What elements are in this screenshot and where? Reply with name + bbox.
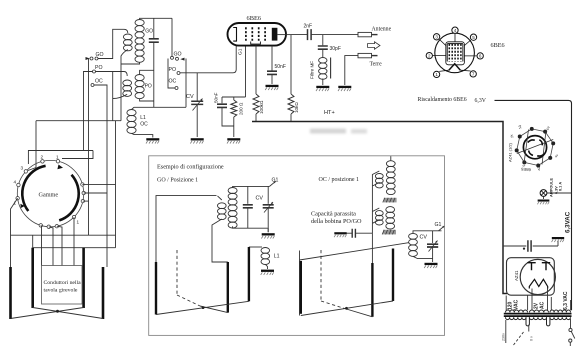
svg-text:G1: G1 <box>435 222 442 228</box>
wire PO coil top/bottom to rail x154 <box>140 70 154 101</box>
wire to ground 6.3 return <box>557 241 559 247</box>
svg-text:OC / posizione 1: OC / posizione 1 <box>319 177 360 183</box>
ground GO tank <box>267 228 269 232</box>
svg-text:4: 4 <box>14 180 17 185</box>
svg-text:3: 3 <box>435 35 438 40</box>
svg-text:0.1 A: 0.1 A <box>559 182 563 191</box>
ground under CV <box>190 138 203 143</box>
terminal G1 arrow <box>270 181 276 186</box>
board diagonal 1 <box>11 308 84 319</box>
rotary contact 188deg <box>16 197 19 200</box>
wire verticals down to board <box>89 186 116 267</box>
wire GO coil top to G1 <box>233 186 270 187</box>
GO main coil <box>228 188 237 194</box>
board label box <box>42 266 83 305</box>
svg-text:2: 2 <box>41 155 44 160</box>
wire rotary right contacts to verticals <box>83 200 89 202</box>
svg-text:OC: OC <box>95 79 103 85</box>
svg-text:GO: GO <box>145 29 153 35</box>
inductor L PO (oscillator coil PO) <box>135 75 144 81</box>
GO wafer diagonal 1 <box>156 301 249 314</box>
OC wafer diagonal 2 <box>343 308 372 317</box>
rotor wiper arrow <box>57 165 63 170</box>
wire mains tap dashed <box>514 332 524 345</box>
tube basing pin 2 <box>426 52 432 58</box>
wire tube leads to windings <box>506 289 570 311</box>
rotary rotor arc B <box>59 175 79 221</box>
GO wafer diagonal 2 <box>200 306 228 313</box>
OC wafer diagonal 1 <box>301 301 393 316</box>
svg-text:OC: OC <box>140 122 148 128</box>
tube V1 screen bracket <box>251 42 261 45</box>
inductor L1 OC coil <box>127 110 136 116</box>
tube basing pin spokes <box>433 34 477 72</box>
tube V1 cathode <box>233 28 236 42</box>
wire GO coil top to top rail <box>140 18 172 19</box>
svg-text:230v: 230v <box>502 333 506 341</box>
inductor L GO (oscillator coil GO) <box>135 20 144 26</box>
svg-text:L1: L1 <box>274 254 280 260</box>
svg-text:a2: a2 <box>537 167 541 171</box>
board bar 3 <box>82 248 85 308</box>
svg-text:6,3VAC: 6,3VAC <box>565 211 572 233</box>
rotary contact 347deg <box>81 199 84 202</box>
ground OC tank <box>424 263 437 268</box>
wire terre to ground <box>345 56 358 85</box>
rotary rotor arc A <box>22 166 45 211</box>
ground PSU <box>552 237 565 242</box>
tube V1 grids (dashed columns) <box>245 27 247 41</box>
GO wafer outline <box>156 196 217 262</box>
wire vertical to rotary x115.5 <box>115 121 117 203</box>
ground screen bypass <box>265 85 278 90</box>
rotary contact 1deg <box>82 191 85 194</box>
wire rotary lower-left contact <box>40 225 43 265</box>
ground filtre MF <box>316 86 329 91</box>
svg-text:5: 5 <box>472 35 475 40</box>
wire OC tank bottom <box>413 256 433 258</box>
svg-text:AZ41: AZ41 <box>514 270 519 281</box>
svg-text:AZ41 (1/2): AZ41 (1/2) <box>508 142 513 162</box>
OC wafer dashed rotor <box>320 250 322 301</box>
inductor small coupling coil (PO band) <box>123 80 132 86</box>
tube basing cathode vee <box>449 64 461 70</box>
tube basing internal structure <box>446 42 465 65</box>
transformer secondary 2V <box>530 310 549 312</box>
wire h150 segment <box>28 150 93 152</box>
OC tank coil <box>409 233 418 239</box>
rotary contact 104deg <box>41 160 44 163</box>
svg-text:2: 2 <box>428 53 431 58</box>
GO wafer junction dot <box>202 306 205 309</box>
svg-text:OC: OC <box>169 79 177 85</box>
inductor small coupling coil (GO band) <box>123 34 132 40</box>
inductor L1 GO position <box>249 246 262 248</box>
tube basing pin 6 <box>477 53 483 59</box>
capacitor parasitic <box>352 229 355 238</box>
wire rotary left contact down <box>11 198 18 267</box>
tube basing pin 4 <box>452 27 458 33</box>
capacitor filter electrolytic <box>528 240 531 252</box>
tube basing pin 1 <box>433 71 439 77</box>
capacitor padder GO <box>247 186 249 203</box>
svg-text:Capacità parassita: Capacità parassita <box>311 210 356 217</box>
svg-text:HT+: HT+ <box>324 110 335 116</box>
GO wafer small coil leads <box>212 196 228 262</box>
board bar 2 <box>31 248 34 308</box>
wire screen lead down <box>255 46 257 95</box>
svg-text:3: 3 <box>21 166 24 171</box>
svg-text:CV: CV <box>420 235 428 241</box>
svg-text:200 Ω: 200 Ω <box>239 102 244 115</box>
rotary contact 165deg <box>17 183 20 186</box>
svg-text:Gamme: Gamme <box>39 191 59 198</box>
wire SW2 OC feed <box>168 59 175 89</box>
svg-text:6: 6 <box>479 54 482 59</box>
socket outer contour <box>517 129 554 166</box>
rotary contact 77deg <box>56 160 59 163</box>
transformer secondary 6,3V <box>550 310 570 312</box>
wire cap vertical rail x154 <box>153 18 155 107</box>
rotary contact 281deg <box>55 224 58 227</box>
wire rail bend x28 to rotary <box>28 151 93 165</box>
svg-text:6,3 VAC: 6,3 VAC <box>563 291 569 310</box>
svg-text:della bobina PO/GO: della bobina PO/GO <box>311 218 362 225</box>
OC second coil small <box>375 211 383 216</box>
ground parasitic cap <box>334 232 347 237</box>
svg-text:2nF: 2nF <box>304 24 313 30</box>
svg-text:50nF: 50nF <box>275 64 286 70</box>
frame esempio di configurazione <box>149 156 445 336</box>
wire SW2 common bar <box>185 59 187 108</box>
board crossing junction <box>56 310 59 313</box>
transformer secondary 120VAC <box>506 310 528 312</box>
svg-text:GO: GO <box>174 52 182 58</box>
svg-text:PO: PO <box>95 65 103 71</box>
svg-text:VAC: VAC <box>514 299 520 310</box>
svg-text:100kΩ: 100kΩ <box>259 100 264 114</box>
wire mains lead left <box>505 320 507 343</box>
svg-text:PO: PO <box>145 84 152 90</box>
wire mains 0V <box>528 325 530 332</box>
wire small coil GO leads <box>98 29 128 120</box>
svg-text:4: 4 <box>454 28 457 33</box>
svg-text:CV: CV <box>256 196 264 202</box>
ground cathode network <box>227 138 240 143</box>
blurred print smudge <box>310 129 367 134</box>
wire SW1 OC to mid rail <box>94 85 107 194</box>
socket pins <box>551 141 555 145</box>
svg-text:GO / Posizione 1: GO / Posizione 1 <box>157 178 198 184</box>
rotary contact 16deg <box>81 183 84 186</box>
wire heater 6.3V line <box>495 100 572 310</box>
rotary contact 315deg <box>72 215 75 218</box>
wire plate lead <box>277 34 291 36</box>
tube AZ41 anodes <box>527 263 550 271</box>
switch mains <box>570 319 572 328</box>
arrow symbol antenna <box>368 42 381 49</box>
svg-text:Terre: Terre <box>370 62 383 68</box>
GO wafer dashed rotor <box>176 250 178 295</box>
svg-text:50nF: 50nF <box>214 92 219 103</box>
socket internal links <box>517 130 553 165</box>
svg-text:AMPOULE: AMPOULE <box>550 178 554 197</box>
rotary contact 267deg <box>47 225 50 228</box>
svg-text:1: 1 <box>56 155 59 160</box>
ground lamp <box>543 196 545 199</box>
board bar left <box>9 267 12 319</box>
wire grid G1 line y72.5 <box>180 46 236 73</box>
connector Terre <box>358 53 372 57</box>
svg-text:Esempio di configurazione: Esempio di configurazione <box>157 164 224 171</box>
wire SW1 PO to left rail <box>84 72 93 151</box>
wire L1 leads <box>132 107 187 137</box>
transformer core <box>504 313 572 315</box>
wire cathode lead x245.5 <box>222 46 246 98</box>
wire GO coil bottom <box>121 62 140 64</box>
svg-text:30pF: 30pF <box>330 46 341 52</box>
svg-text:1: 1 <box>77 220 80 225</box>
svg-text:AC: AC <box>540 301 546 309</box>
svg-text:6BE6: 6BE6 <box>247 15 262 22</box>
wire OC coil top <box>390 156 392 161</box>
wire board horizontals <box>11 235 116 248</box>
OC coil core bar <box>384 198 397 203</box>
svg-text:L1: L1 <box>140 115 146 121</box>
ground terre <box>338 86 351 91</box>
tube basing pin 7 <box>470 71 476 77</box>
wire OC tank top to G1 <box>413 231 442 234</box>
GO wafer mid bar <box>227 262 229 313</box>
OC antenna coil main <box>386 161 395 167</box>
OC antenna coil small <box>375 174 383 179</box>
wire HT filter line <box>503 245 526 247</box>
transformer primary <box>506 317 526 319</box>
svg-text:Conduttori nella: Conduttori nella <box>44 280 82 286</box>
OC wafer right bar <box>392 249 394 302</box>
svg-text:7: 7 <box>472 72 475 77</box>
rotary contact 253deg <box>39 224 42 227</box>
tube AZ41 filament <box>529 279 547 288</box>
OC second coil main <box>386 207 395 213</box>
OC wafer junction <box>345 307 348 310</box>
board bar right <box>102 267 105 319</box>
svg-text:0 v: 0 v <box>530 336 534 341</box>
wire SW1 common bar down to rotary <box>88 59 90 187</box>
svg-text:G1: G1 <box>272 178 279 184</box>
OC second core bar <box>383 230 396 235</box>
wire GO coil bottom <box>233 226 268 228</box>
tube basing pin 5 <box>470 34 476 40</box>
wire GO top rail down to SW2 <box>171 18 173 56</box>
svg-text:G1: G1 <box>238 48 244 55</box>
svg-text:6,3V: 6,3V <box>475 98 487 104</box>
svg-text:tavola girevole: tavola girevole <box>44 288 78 294</box>
OC wafer left edge <box>299 251 301 316</box>
svg-text:Antenne: Antenne <box>372 27 392 33</box>
svg-text:1: 1 <box>435 72 438 77</box>
svg-text:Riscaldamento 6BE6: Riscaldamento 6BE6 <box>418 97 467 103</box>
svg-text:Filtre MF: Filtre MF <box>310 61 315 79</box>
wire small PO coil leads <box>96 72 128 121</box>
ground under L1 <box>146 138 159 143</box>
ground L1 <box>261 270 274 275</box>
wire horizontal chassis rail y121 <box>36 120 121 122</box>
OC wafer slant top <box>300 243 409 260</box>
svg-text:CV: CV <box>186 94 194 100</box>
wire OC small coils common <box>372 171 379 233</box>
wire left rail to rotary contact3 <box>28 121 36 171</box>
svg-text:6BE6: 6BE6 <box>491 42 505 49</box>
capacitor padding (GO) <box>149 39 159 42</box>
rotary switch Gamme outer circle <box>17 160 83 226</box>
tube V1 plate <box>272 28 278 41</box>
GO wafer right bar <box>248 247 250 301</box>
OC wafer mid bar <box>371 233 373 263</box>
socket electrode arcs <box>528 140 544 156</box>
tube basing pin 3 <box>433 34 439 40</box>
GO wafer small coil <box>218 203 227 209</box>
rotary contact 138deg <box>24 170 27 173</box>
svg-text:PO: PO <box>169 67 177 73</box>
board diagonal 2 <box>33 308 103 319</box>
